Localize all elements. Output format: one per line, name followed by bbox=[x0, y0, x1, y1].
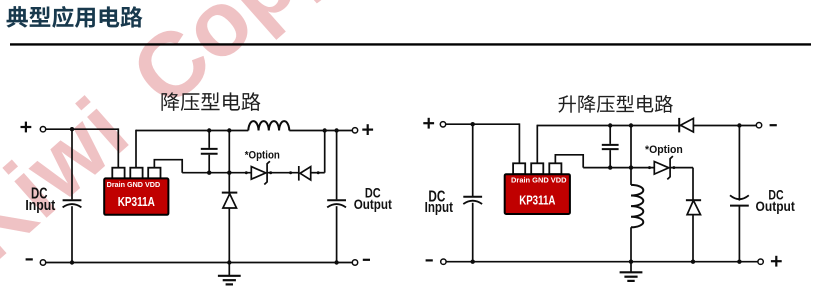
svg-text:Output: Output bbox=[354, 197, 393, 212]
svg-text:Output: Output bbox=[756, 199, 796, 214]
svg-text:Drain GND VDD: Drain GND VDD bbox=[511, 176, 567, 185]
svg-text:*Option: *Option bbox=[645, 144, 683, 156]
svg-text:Input: Input bbox=[425, 199, 453, 216]
svg-text:KP311A: KP311A bbox=[118, 195, 155, 209]
svg-text:KP311A: KP311A bbox=[519, 193, 555, 207]
svg-text:*Option: *Option bbox=[245, 150, 280, 162]
svg-text:Input: Input bbox=[25, 197, 55, 214]
svg-text:Drain GND VDD: Drain GND VDD bbox=[107, 180, 161, 189]
